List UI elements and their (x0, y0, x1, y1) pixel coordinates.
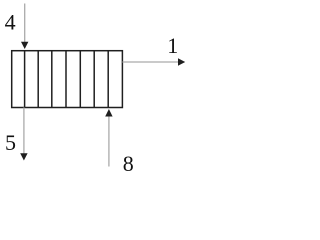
stream 5 arrow (outlet, bottom left) (20, 108, 27, 161)
svg-text:8: 8 (123, 151, 134, 175)
svg-text:4: 4 (5, 10, 16, 35)
divider 7 (107, 51, 109, 108)
divider 2 (37, 51, 39, 108)
divider 5 (79, 51, 81, 108)
svg-text:1: 1 (167, 33, 178, 58)
svg-text:5: 5 (5, 130, 16, 155)
stream 1 arrow (outlet, right) (122, 58, 185, 65)
divider 6 (93, 51, 95, 108)
stream 8 arrow (inlet, bottom right) (105, 109, 112, 167)
heat exchanger body (rectangle) (12, 51, 123, 108)
stream 4 arrow (inlet, top) (21, 4, 28, 50)
divider 1 (24, 51, 26, 108)
divider 4 (65, 51, 67, 108)
divider 3 (51, 51, 53, 108)
